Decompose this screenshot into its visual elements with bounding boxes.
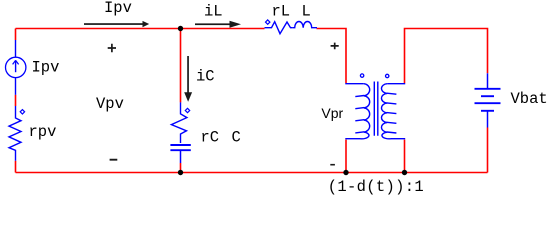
transformer primary winding: [345, 84, 369, 139]
wire transformer primary bottom: [345, 140, 347, 173]
svg-text:iL: iL: [204, 3, 223, 21]
junction dot secondary bottom: [402, 170, 407, 175]
resistor rL: [265, 22, 293, 34]
svg-text:Ipv: Ipv: [32, 59, 60, 77]
junction dot top: [178, 26, 183, 31]
wire capacitor branch upper: [180, 29, 182, 103]
label minus Vpv: [110, 159, 118, 161]
wire top bus junction to rL: [181, 28, 265, 30]
wire battery to bottom bus: [487, 128, 489, 173]
label plus Vpr: [331, 43, 339, 50]
svg-text:iC: iC: [196, 68, 215, 86]
resistor rC: [171, 102, 187, 143]
arrow Ipv: [84, 21, 149, 27]
wire bottom bus: [16, 172, 488, 174]
current source Ipv: [6, 40, 26, 95]
junction dot bottom center: [178, 170, 183, 175]
svg-text:C: C: [232, 129, 241, 147]
polarity marker rC: [185, 108, 189, 112]
resistor rpv: [9, 106, 21, 161]
wire capacitor branch lower: [180, 163, 182, 173]
polarity marker secondary: [386, 74, 389, 77]
wire transformer secondary bottom: [404, 140, 406, 173]
battery Vbat: [475, 73, 501, 127]
arrow iL: [195, 21, 241, 28]
transformer secondary winding: [381, 84, 405, 139]
svg-text:Ipv: Ipv: [104, 0, 132, 17]
inductor L: [293, 22, 317, 28]
label plus Vpv: [108, 44, 116, 52]
svg-text:L: L: [302, 3, 311, 21]
wire rL output to transformer corner: [317, 29, 347, 84]
polarity marker rpv: [20, 110, 24, 114]
capacitor C: [170, 145, 190, 163]
wire transformer secondary top loop: [405, 29, 488, 84]
transformer core: [374, 82, 378, 136]
svg-text:Vpv: Vpv: [96, 95, 124, 113]
arrow iC: [184, 56, 192, 102]
wire left branch red segments: [15, 29, 17, 173]
svg-text:Vbat: Vbat: [511, 90, 548, 108]
wire top bus left: [16, 28, 181, 30]
svg-text:(1-d(t)):1: (1-d(t)):1: [328, 178, 424, 196]
svg-text:rC: rC: [201, 129, 220, 147]
polarity marker primary: [360, 74, 363, 77]
polarity marker rL: [266, 20, 270, 24]
label minus Vpr: [330, 164, 335, 166]
svg-text:rpv: rpv: [29, 123, 57, 141]
junction dot primary bottom: [343, 170, 348, 175]
svg-text:Vpr: Vpr: [321, 105, 343, 121]
svg-text:rL: rL: [272, 3, 291, 21]
